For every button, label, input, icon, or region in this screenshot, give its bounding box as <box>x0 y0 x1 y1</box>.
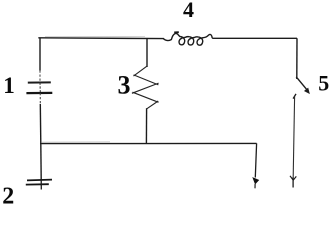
wire top horizontal right segment <box>212 37 297 39</box>
svg-text:2: 2 <box>2 183 14 208</box>
capacitor C2 top plate <box>27 179 52 182</box>
inductor L4 pen-pressure mark <box>174 31 179 33</box>
terminal arrow left shaft <box>254 184 256 188</box>
svg-text:5: 5 <box>318 70 329 95</box>
wire left vertical to C2 <box>40 144 42 180</box>
svg-text:1: 1 <box>3 73 15 98</box>
scan artifact streak above middle wire <box>42 141 110 143</box>
wire left vertical upper <box>39 38 41 71</box>
terminal arrow right shaft <box>292 177 294 188</box>
wire middle horizontal <box>40 142 257 144</box>
resistor R3 bottom lead <box>145 108 147 143</box>
svg-text:4: 4 <box>183 0 194 22</box>
wire right vertical upper <box>296 38 298 79</box>
capacitor C2 stub <box>40 180 42 190</box>
wire right vertical lower <box>293 97 294 178</box>
scan artifact streak above top wire <box>45 35 145 37</box>
capacitor C1 inner wire <box>39 83 41 94</box>
resistor R3 zigzag <box>134 66 148 76</box>
inductor L4 <box>163 33 212 45</box>
wire left vertical lower faint segment <box>39 93 41 104</box>
switch S5 blade <box>296 77 307 91</box>
capacitor C2 bottom plate <box>26 183 49 185</box>
resistor R3 top lead <box>146 38 148 67</box>
capacitor C1 top plate <box>28 81 51 83</box>
capacitor C1 bottom plate <box>26 92 52 94</box>
switch S5 lower contact tick <box>293 94 296 99</box>
wire left vertical upper faint segment <box>39 71 41 83</box>
terminal arrow left (filled) <box>253 178 259 184</box>
switch S5 blade arrowhead <box>305 88 310 93</box>
wire middle-right vertical drop <box>255 143 256 177</box>
terminal arrow right (open V) <box>290 176 296 180</box>
wire top horizontal left segment <box>38 37 164 40</box>
svg-text:3: 3 <box>118 71 131 100</box>
wire left vertical lower <box>39 104 42 144</box>
